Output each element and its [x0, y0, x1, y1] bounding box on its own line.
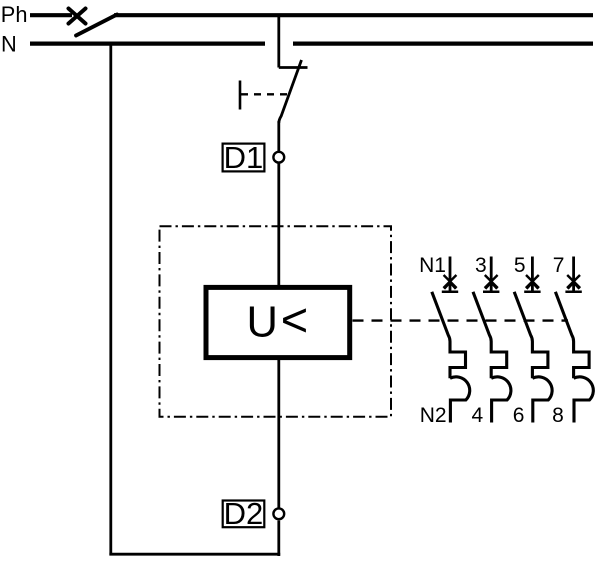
- breaker pole 2 thermal-magnetic trip: [491, 342, 511, 423]
- svg-text:6: 6: [513, 404, 525, 427]
- mechanical dashed link to breaker poles: [353, 319, 569, 321]
- svg-text:N: N: [1, 31, 17, 56]
- wire bottom return: [109, 553, 280, 556]
- plug-in terminal pole 4: [565, 257, 581, 292]
- breaker pole 4 thermal-magnetic trip: [574, 342, 594, 423]
- wire Ph bus left segment: [30, 13, 72, 17]
- wire D2 to bottom return: [277, 521, 280, 557]
- terminal D1: [273, 152, 284, 163]
- switch Q1 blade: [76, 15, 117, 36]
- svg-text:N1: N1: [419, 254, 446, 277]
- svg-text:<: <: [281, 293, 308, 346]
- svg-text:4: 4: [472, 404, 484, 427]
- svg-text:5: 5: [514, 254, 526, 277]
- svg-text:D2: D2: [224, 496, 264, 531]
- terminal label D2: [223, 496, 265, 531]
- breaker pole 3 blade: [514, 292, 532, 342]
- wire undervoltage coil to terminal D2: [277, 358, 280, 510]
- svg-text:D1: D1: [224, 140, 264, 175]
- undervoltage release MN enclosure (dash-dot boundary): [160, 226, 392, 417]
- svg-text:U: U: [247, 299, 278, 347]
- terminal label D1: [223, 140, 265, 175]
- actuator link bar: [239, 81, 242, 110]
- plug-in terminal pole 2: [483, 257, 499, 292]
- plug-in terminal pole 1: [442, 257, 458, 292]
- breaker pole 4 blade: [555, 292, 573, 342]
- terminal D2: [273, 508, 284, 519]
- actuator dashed link: [241, 93, 290, 95]
- breaker pole 1 thermal-magnetic trip: [450, 342, 470, 423]
- breaker pole 2 blade: [473, 292, 491, 342]
- breaker pole 1 blade: [432, 292, 450, 342]
- wire contact to terminal D1: [277, 121, 280, 152]
- wire N bus right segment: [293, 41, 593, 45]
- svg-text:N2: N2: [420, 404, 447, 427]
- trip contact fixed tick: [279, 66, 308, 69]
- wire D1 to undervoltage coil: [277, 163, 280, 287]
- switch Q1 fixed contact cross: [69, 9, 86, 24]
- svg-text:3: 3: [475, 254, 487, 277]
- svg-text:Ph: Ph: [1, 2, 28, 27]
- wire Ph drop to trip contact: [277, 15, 280, 68]
- svg-text:8: 8: [552, 404, 564, 427]
- wire N feeder vertical: [109, 44, 112, 556]
- undervoltage coil U<: [206, 287, 350, 357]
- plug-in terminal pole 3: [524, 257, 540, 292]
- wire Ph bus right segment: [114, 13, 593, 17]
- breaker pole 3 thermal-magnetic trip: [532, 342, 552, 423]
- trip contact blade: [279, 60, 302, 123]
- svg-text:7: 7: [553, 254, 565, 277]
- wire N bus left segment: [30, 41, 265, 45]
